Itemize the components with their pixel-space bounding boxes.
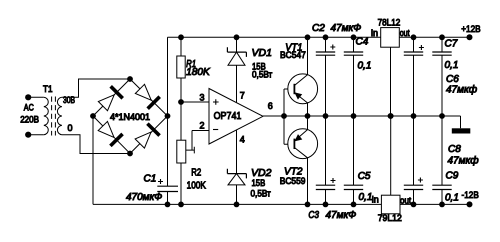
svg-text:3: 3 (200, 93, 205, 103)
svg-text:C9: C9 (446, 170, 459, 181)
svg-text:VD1: VD1 (252, 47, 272, 59)
svg-text:4: 4 (240, 135, 245, 145)
middle rail (output common) (284, 115, 461, 117)
svg-text:220В: 220В (20, 114, 39, 124)
svg-text:R2: R2 (191, 168, 201, 179)
svg-text:C1: C1 (144, 174, 157, 185)
svg-text:C4: C4 (356, 36, 369, 47)
svg-text:47мкФ: 47мкФ (331, 23, 362, 34)
svg-text:OP741: OP741 (214, 111, 242, 122)
svg-text:0: 0 (68, 123, 73, 133)
svg-text:15В: 15В (252, 178, 266, 188)
transistor VT1 BC547 (280, 34, 318, 119)
wire bridge right node to top rail (167, 37, 169, 116)
capacitor C1 470мкФ (126, 116, 178, 207)
svg-text:C2: C2 (312, 23, 325, 34)
potentiometer R2 100K (177, 131, 206, 208)
terminal +12В (461, 24, 481, 41)
diode D4 bottom-right (134, 124, 160, 150)
svg-text:7: 7 (240, 91, 245, 101)
svg-text:470мкФ: 470мкФ (126, 192, 162, 203)
svg-text:0,1: 0,1 (359, 192, 373, 203)
svg-text:0,5Вт: 0,5Вт (252, 70, 272, 80)
transistor VT2 BC559 (280, 116, 318, 207)
svg-text:2: 2 (200, 120, 205, 130)
regulator 78L12 (371, 18, 410, 119)
svg-text:C8: C8 (448, 144, 461, 155)
svg-text:100K: 100K (187, 181, 207, 192)
capacitor C5 0,1 (344, 116, 373, 207)
svg-text:C7: C7 (445, 39, 458, 50)
resistor R1 180K (177, 34, 211, 140)
svg-text:out: out (400, 28, 410, 38)
capacitor C4 0,1 (344, 34, 372, 119)
svg-text:C3: C3 (308, 210, 319, 221)
op-amp U1 OP741 (181, 65, 284, 173)
svg-text:30В: 30В (63, 95, 75, 105)
capacitor C8 47мкф (404, 116, 479, 207)
svg-text:78L12: 78L12 (378, 18, 401, 28)
wire bases of VT1/VT2 (281, 89, 294, 144)
diode D2 top-right (134, 83, 160, 109)
svg-text:+12В: +12В (461, 24, 481, 35)
capacitor C3 47мкФ (308, 116, 356, 221)
capacitor C6 47мкф (404, 34, 478, 119)
svg-text:-12В: -12В (462, 190, 479, 201)
svg-text:C6: C6 (446, 74, 459, 85)
regulator 79L12 (372, 113, 412, 223)
wire bridge left node to bottom rail (92, 116, 94, 204)
node divider to pin 3 (178, 99, 184, 105)
zener diode VD1 15В 0,5Вт (227, 34, 272, 79)
capacitor C7 0,1 (432, 34, 458, 119)
svg-text:0,1: 0,1 (445, 60, 459, 71)
top rail (168, 36, 470, 38)
svg-text:BC547: BC547 (280, 50, 306, 60)
svg-text:BC559: BC559 (280, 176, 306, 186)
svg-text:47мкф: 47мкф (448, 155, 480, 167)
capacitor C9 0,1 (432, 116, 459, 207)
svg-text:0,5Вт: 0,5Вт (251, 188, 271, 198)
svg-text:in: in (371, 28, 378, 38)
wire secondary top to bridge (62, 79, 130, 97)
capacitor C2 47мкФ (312, 23, 361, 119)
svg-text:in: in (372, 195, 379, 205)
ground symbol (452, 116, 471, 134)
svg-text:AC: AC (24, 102, 34, 112)
svg-text:6: 6 (268, 101, 273, 111)
bridge rectifier 4*1N4001 (90, 76, 170, 156)
svg-text:C5: C5 (358, 171, 371, 182)
zener diode VD2 15В 0,5Вт (227, 167, 271, 207)
svg-text:out: out (400, 196, 412, 206)
diode D1 top-left (97, 86, 123, 112)
svg-text:0,1: 0,1 (358, 61, 372, 72)
transformer T1 (20, 84, 75, 138)
svg-text:47мкф: 47мкф (446, 84, 478, 96)
svg-text:0,1: 0,1 (445, 192, 459, 203)
svg-text:4*1N4001: 4*1N4001 (110, 112, 150, 122)
svg-text:T1: T1 (43, 84, 53, 94)
svg-text:180K: 180K (186, 67, 211, 78)
diode D3 bottom-left (97, 120, 123, 146)
terminal -12В (462, 190, 479, 207)
svg-text:47мкФ: 47мкФ (326, 210, 357, 221)
wire secondary bottom to bridge (62, 135, 130, 154)
bottom rail (93, 203, 470, 205)
svg-text:79L12: 79L12 (378, 213, 402, 223)
